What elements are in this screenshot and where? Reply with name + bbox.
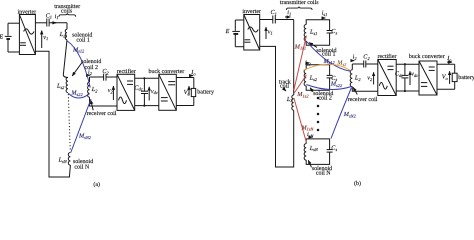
svg-text:rectifier: rectifier (378, 53, 397, 60)
svg-text:receiver coil: receiver coil (348, 96, 378, 103)
svg-text:C1: C1 (46, 12, 52, 19)
svg-text:L2: L2 (354, 74, 361, 81)
svg-text:buck converter: buck converter (409, 53, 445, 60)
svg-text:E: E (225, 28, 230, 35)
svg-text:i1: i1 (287, 9, 291, 16)
svg-text:v1: v1 (268, 28, 273, 35)
svg-text:v2: v2 (108, 87, 114, 94)
svg-text:i1: i1 (55, 13, 59, 20)
svg-text:buck converter: buck converter (148, 68, 184, 75)
svg-text:isN: isN (307, 131, 314, 138)
svg-text:Ms12: Ms12 (72, 46, 85, 53)
svg-text:inverter: inverter (242, 9, 261, 15)
svg-text:Io: Io (190, 69, 196, 76)
svg-text:battery: battery (458, 74, 474, 81)
svg-text:Ls2: Ls2 (56, 83, 65, 90)
svg-text:Ls2: Ls2 (309, 75, 318, 82)
svg-text:coils: coils (61, 7, 73, 14)
svg-text:Ls1: Ls1 (309, 29, 317, 36)
svg-text:LsN: LsN (309, 145, 319, 152)
svg-text:C2: C2 (363, 54, 370, 61)
svg-text:inverter: inverter (17, 9, 36, 15)
svg-text:C1: C1 (271, 9, 277, 16)
svg-text:Ms2: Ms2 (336, 59, 347, 66)
svg-text:Ms12: Ms12 (323, 58, 336, 65)
svg-text:is2: is2 (305, 59, 311, 66)
svg-text:MsN2: MsN2 (78, 133, 92, 140)
svg-text:M1s2: M1s2 (296, 91, 309, 98)
svg-text:coil: coil (280, 82, 289, 89)
svg-text:coil 1: coil 1 (322, 50, 336, 57)
svg-text:MsN2: MsN2 (343, 111, 357, 118)
svg-text:is1: is1 (322, 10, 328, 17)
svg-text:v1: v1 (43, 34, 48, 41)
svg-text:E: E (0, 34, 3, 41)
svg-text:LsN: LsN (58, 157, 68, 164)
svg-text:vdc: vdc (411, 70, 418, 77)
svg-text:coil N: coil N (74, 163, 89, 170)
svg-text:vdc: vdc (151, 88, 158, 95)
svg-text:coil N: coil N (316, 169, 331, 176)
svg-text:Vo: Vo (442, 74, 449, 81)
svg-text:Ms22: Ms22 (70, 89, 83, 96)
svg-text:(b): (b) (354, 180, 361, 187)
svg-text:C2: C2 (102, 68, 109, 75)
svg-text:coil 2: coil 2 (85, 64, 99, 71)
svg-text:receiver coil: receiver coil (87, 110, 117, 117)
svg-text:(a): (a) (93, 181, 100, 188)
svg-text:transmitter coils: transmitter coils (280, 0, 319, 6)
svg-text:Io: Io (446, 55, 452, 62)
svg-text:i2: i2 (353, 53, 358, 60)
svg-text:v2: v2 (367, 75, 373, 82)
svg-text:rectifier: rectifier (117, 68, 136, 75)
svg-text:Cs: Cs (331, 28, 337, 35)
svg-text:battery: battery (197, 89, 214, 96)
svg-text:Cdc: Cdc (134, 84, 142, 91)
svg-text:L2: L2 (91, 86, 98, 93)
svg-text:Cdc: Cdc (395, 71, 403, 78)
svg-text:Cs: Cs (331, 145, 337, 152)
svg-text:coil 2: coil 2 (318, 94, 332, 101)
svg-text:coil 1: coil 1 (76, 36, 90, 43)
